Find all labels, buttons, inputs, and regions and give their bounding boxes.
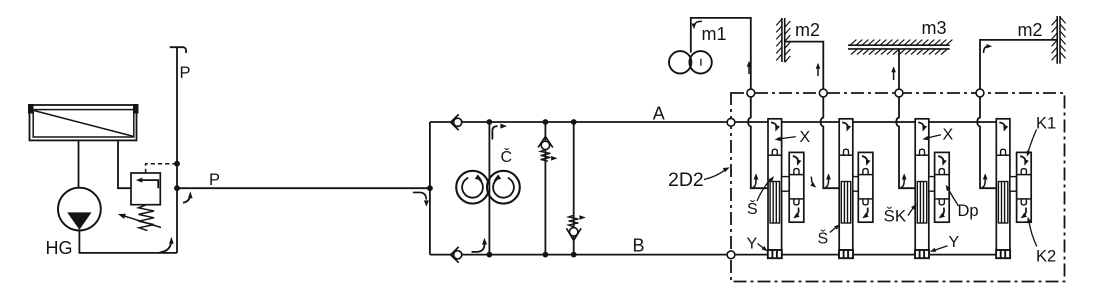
- svg-text:Y: Y: [747, 236, 758, 253]
- valve spool section 3 body: [915, 119, 929, 250]
- block dividers section 2: [858, 174, 873, 176]
- spool inner sleeve section 3: [917, 182, 926, 224]
- notch upper in block section 3: [939, 169, 944, 175]
- notch in spool top box section 2: [844, 149, 849, 155]
- svg-text:m3: m3: [922, 18, 947, 38]
- wire manifold left edge: [429, 122, 431, 255]
- pilot wire section 2: [821, 97, 840, 188]
- spool bottom cap section 2: [839, 250, 853, 258]
- wire gear unit vertical: [488, 122, 490, 255]
- arrow K2 pointer: [1029, 222, 1037, 247]
- spool inner sleeve section 2: [841, 182, 850, 224]
- svg-text:HG: HG: [46, 238, 73, 258]
- svg-text:m2: m2: [1018, 20, 1043, 40]
- stub port section 1: [782, 177, 790, 192]
- arrow pilot elbow section 4: [982, 178, 985, 188]
- block dividers section 1: [789, 174, 804, 176]
- arrow return flow up: [160, 242, 172, 253]
- wall m2 left: [781, 18, 783, 62]
- svg-text:ŠK: ŠK: [884, 207, 907, 226]
- wire m2 left to port: [785, 42, 824, 90]
- svg-text:A: A: [653, 104, 665, 124]
- gear unit C left circle: [456, 171, 489, 204]
- node A2: [543, 119, 549, 125]
- spool inner sleeve section 1: [770, 182, 779, 224]
- svg-text:m1: m1: [702, 24, 727, 44]
- arrow K1 pointer: [1028, 130, 1037, 153]
- check valve CV4 spring-loaded: [569, 215, 579, 227]
- arrow spring adjust: [123, 216, 161, 228]
- pump HG: [58, 188, 101, 231]
- svg-text:Dp: Dp: [958, 202, 979, 220]
- spool divider section 3: [915, 154, 929, 156]
- arrow rotation right: [493, 178, 514, 198]
- wire m3 to port: [898, 49, 900, 89]
- port m2 left: [819, 89, 827, 97]
- arrow m1 stem up: [748, 66, 750, 75]
- arrow 2D2 pointer: [704, 170, 726, 180]
- wall m3: [848, 44, 950, 46]
- arrow in block top cell section 1: [793, 156, 798, 162]
- arrow in spool top box section 3: [918, 122, 923, 128]
- pilot wire section 1: [748, 97, 768, 188]
- spool divider section 1: [768, 154, 782, 156]
- arrow X3 pointer: [926, 135, 941, 138]
- arrow m2 right corner curl: [984, 46, 988, 53]
- valve spool section 1 body: [768, 119, 782, 250]
- node B2: [543, 252, 549, 258]
- check valve CV1 on A: [454, 118, 462, 126]
- line riser P: [176, 47, 178, 253]
- side block section 1: [789, 152, 804, 222]
- arrow m3 stem up: [893, 71, 895, 80]
- side block section 4: [1017, 152, 1032, 222]
- svg-text:2D2: 2D2: [668, 169, 704, 191]
- notch in spool top box section 1: [772, 149, 777, 155]
- arrow in spool top box section 1: [771, 122, 776, 128]
- arrow in block bottom cell section 2: [865, 208, 868, 217]
- node A3: [571, 119, 577, 125]
- notch lower in block section 1: [794, 199, 799, 205]
- spool inner sleeve section 4: [998, 182, 1007, 224]
- stub port section 2: [853, 177, 859, 192]
- arrow m2 stem up: [817, 68, 819, 77]
- tank T1 (reservoir with diagonal): [30, 105, 137, 140]
- arrow P flow up: [183, 195, 190, 203]
- wire bypass line 1: [544, 122, 546, 255]
- svg-text:Č: Č: [501, 147, 513, 166]
- block dividers section 4: [1017, 174, 1032, 176]
- arrow Dp pointer: [949, 190, 959, 207]
- arrow drain hook section 1: [811, 177, 813, 186]
- wire tank to pump: [78, 141, 80, 188]
- wire P line: [177, 187, 430, 189]
- block dividers section 3: [935, 174, 950, 176]
- arrow top hook: [492, 126, 497, 139]
- pilot wire section 4: [977, 97, 996, 188]
- port A on border: [727, 118, 735, 126]
- svg-text:X: X: [943, 127, 954, 144]
- svg-text:X: X: [800, 129, 811, 146]
- riser top tick: [170, 47, 186, 53]
- pilot dashed line: [146, 164, 176, 173]
- port m1: [747, 89, 755, 97]
- arrow SK pointer: [908, 207, 914, 216]
- notch in spool top box section 3: [920, 149, 925, 155]
- arrow in block bottom cell section 4: [1023, 208, 1026, 217]
- notch upper in block section 2: [863, 169, 868, 175]
- arrow m1 corner curl: [694, 21, 702, 25]
- relief valve V1: [131, 173, 160, 205]
- pilot wire section 3: [896, 97, 915, 188]
- arrow pilot elbow section 1: [753, 178, 756, 188]
- valve spool section 2 body: [839, 119, 853, 250]
- spool bottom cap section 1: [768, 250, 782, 258]
- wire m2 right to port: [980, 40, 1057, 89]
- notch in spool top box section 4: [1001, 149, 1006, 155]
- wire tank to relief valve: [118, 141, 131, 189]
- arrow in block top cell section 3: [938, 156, 943, 162]
- svg-text:B: B: [633, 236, 645, 256]
- arrow bottom hook: [472, 243, 485, 252]
- svg-text:K2: K2: [1036, 248, 1056, 266]
- arrow rotation left: [462, 178, 483, 198]
- notch upper in block section 1: [794, 169, 799, 175]
- spring of relief valve: [139, 205, 155, 231]
- side block section 3: [935, 152, 950, 222]
- stub port section 3: [929, 177, 935, 192]
- svg-text:m2: m2: [795, 20, 820, 40]
- wire bypass line 2: [573, 122, 575, 255]
- node A1: [487, 119, 493, 125]
- arrow in block bottom cell section 3: [941, 208, 944, 217]
- arrow Y1 pointer: [758, 244, 765, 250]
- arrow pilot elbow section 3: [901, 178, 904, 188]
- node P entry: [427, 185, 433, 191]
- notch lower in block section 4: [1021, 199, 1026, 205]
- wire A line: [430, 121, 1006, 123]
- arrow in spool top box section 2: [842, 122, 847, 128]
- valve spool section 4 body: [996, 119, 1010, 250]
- node P junction: [174, 185, 180, 191]
- node B1: [487, 252, 493, 258]
- wall m2 right: [1056, 16, 1058, 64]
- svg-text:P: P: [209, 171, 220, 189]
- notch lower in block section 2: [863, 199, 868, 205]
- wire pump outlet to riser: [79, 231, 176, 253]
- svg-text:K1: K1: [1036, 115, 1056, 133]
- arrow pilot elbow section 2: [825, 178, 828, 188]
- arrow in block bottom cell section 1: [796, 208, 799, 217]
- check valve CV2 on B: [454, 251, 462, 259]
- node pilot junction: [174, 161, 180, 167]
- gear unit C right circle: [487, 171, 520, 204]
- spool bottom cap section 4: [996, 250, 1010, 258]
- port m2 right: [976, 89, 984, 97]
- check valve CV3 spring-loaded: [541, 141, 549, 149]
- arrow in block top cell section 2: [862, 156, 867, 162]
- arrow in spool top box section 4: [999, 122, 1004, 128]
- arrow S2 pointer: [830, 227, 837, 233]
- enclosure 2D2 box: [731, 93, 1065, 282]
- svg-text:Y: Y: [949, 234, 960, 251]
- port m3: [895, 89, 903, 97]
- spool divider section 2: [839, 154, 853, 156]
- svg-text:P: P: [180, 64, 191, 82]
- side block section 2: [858, 152, 873, 222]
- notch lower in block section 3: [939, 199, 944, 205]
- stub port section 4: [1010, 177, 1017, 192]
- svg-text:Š: Š: [818, 229, 829, 248]
- spool bottom cap section 3: [915, 250, 929, 258]
- arrow flow down: [413, 192, 426, 199]
- svg-text:Š: Š: [747, 199, 758, 218]
- node B3: [571, 252, 577, 258]
- arrow Y3 pointer: [934, 246, 948, 251]
- notch upper in block section 4: [1021, 169, 1026, 175]
- arrow S1 pointer: [757, 180, 771, 202]
- wire m1 to port: [691, 18, 751, 89]
- arrow X1 pointer: [779, 137, 796, 139]
- spool divider section 4: [996, 154, 1010, 156]
- arrow in block top cell section 4: [1020, 156, 1025, 162]
- gauge m1 circles: [669, 51, 691, 73]
- port B on border: [727, 251, 735, 259]
- wire B line: [430, 254, 1006, 256]
